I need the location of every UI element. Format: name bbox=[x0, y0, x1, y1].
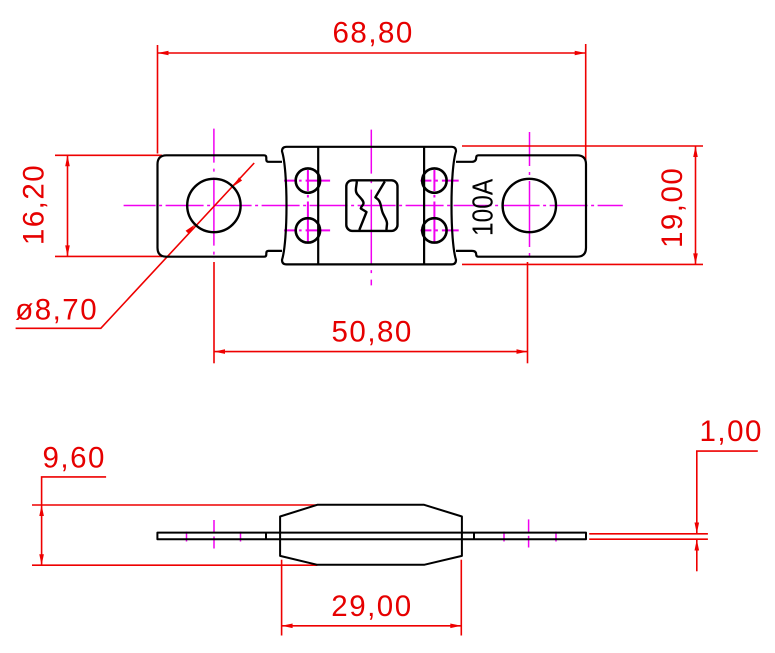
svg-text:100A: 100A bbox=[467, 179, 499, 236]
svg-text:9,60: 9,60 bbox=[43, 442, 106, 475]
svg-text:68,80: 68,80 bbox=[333, 17, 414, 50]
svg-text:50,80: 50,80 bbox=[332, 315, 413, 348]
svg-text:19,00: 19,00 bbox=[656, 167, 689, 248]
svg-text:ø8,70: ø8,70 bbox=[15, 294, 98, 327]
svg-text:16,20: 16,20 bbox=[18, 164, 51, 245]
svg-text:1,00: 1,00 bbox=[700, 415, 763, 448]
svg-text:29,00: 29,00 bbox=[331, 590, 412, 623]
